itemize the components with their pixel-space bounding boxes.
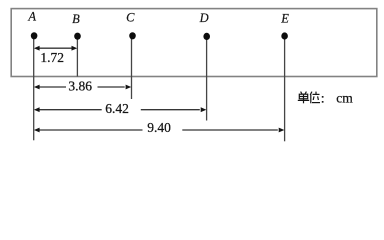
svg-text:B: B [72, 12, 80, 26]
svg-text:3.86: 3.86 [68, 79, 92, 94]
svg-text:9.40: 9.40 [147, 120, 171, 135]
svg-text:1.72: 1.72 [40, 50, 64, 65]
svg-text:6.42: 6.42 [105, 101, 129, 116]
svg-text:D: D [199, 11, 209, 25]
svg-text:C: C [126, 10, 135, 24]
svg-text:A: A [27, 10, 36, 24]
svg-text:cm: cm [336, 91, 353, 106]
svg-text:E: E [280, 11, 289, 25]
